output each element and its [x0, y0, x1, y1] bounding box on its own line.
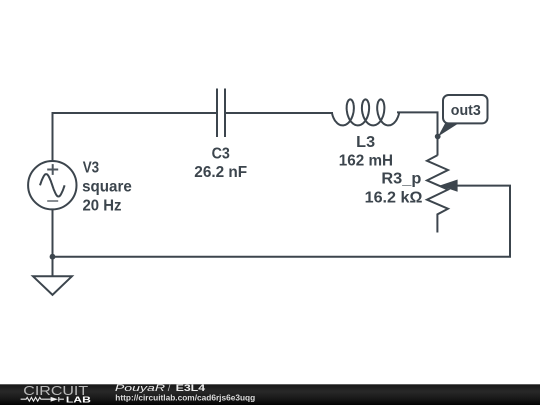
logo CIRCUIT text — [23, 384, 88, 398]
logo wire with resistor and diode — [21, 397, 64, 402]
svg-text:http://circuitlab.com/cad6rjs6: http://circuitlab.com/cad6rjs6e3uqg — [115, 392, 255, 402]
inductor L3 — [332, 99, 399, 125]
capacitor C3 — [217, 89, 225, 138]
wire L3 right to corner down to R3_p top — [397, 112, 438, 155]
svg-text:26.2 nF: 26.2 nF — [194, 164, 247, 181]
potentiometer R3_p wiper arrow — [439, 180, 457, 192]
ground junction dot — [50, 254, 56, 260]
label L3 value — [339, 134, 393, 169]
svg-text:LAB: LAB — [66, 395, 91, 404]
svg-text:20 Hz: 20 Hz — [83, 198, 122, 215]
footer bar — [0, 384, 540, 405]
svg-text:V3: V3 — [83, 159, 100, 176]
voltage source V3 sine — [40, 174, 65, 196]
label C3 value — [194, 146, 247, 181]
label V3 value — [82, 159, 132, 214]
potentiometer R3_p zigzag — [427, 155, 448, 232]
svg-text:R3_p: R3_p — [381, 171, 421, 188]
svg-text:162 mH: 162 mH — [339, 153, 393, 170]
node out3 junction dot — [435, 134, 441, 140]
footer url text — [115, 392, 255, 402]
voltage source V3 minus — [47, 200, 58, 202]
footer title text — [115, 383, 206, 393]
flag out3 box — [443, 95, 488, 123]
wire V3 bottom to ground junction — [52, 209, 54, 257]
flag out3 tail — [438, 124, 458, 137]
voltage source V3 plus — [47, 164, 58, 175]
wire C3 right to L3 left — [226, 112, 333, 114]
label R3_p value — [365, 171, 423, 207]
svg-text:square: square — [82, 179, 132, 196]
svg-text:L3: L3 — [356, 134, 375, 151]
svg-text:16.2 kΩ: 16.2 kΩ — [365, 189, 423, 206]
logo diode triangle — [51, 397, 58, 402]
logo LAB text — [66, 395, 91, 404]
voltage source V3 circle — [28, 161, 76, 209]
flag out3 text — [451, 102, 481, 119]
svg-text:C3: C3 — [212, 146, 231, 163]
svg-text:out3: out3 — [451, 102, 481, 119]
ground — [33, 257, 72, 295]
wire wiper right down and along bottom — [53, 186, 511, 257]
wire V3 top to C3 left — [53, 113, 217, 161]
